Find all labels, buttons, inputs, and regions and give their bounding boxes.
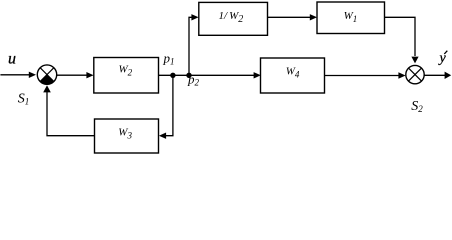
wire W1 to S2 (385, 17, 416, 56)
block W1 (317, 2, 385, 34)
svg-text:u: u (8, 50, 16, 67)
wire p2 up to 1/W2 (189, 17, 194, 75)
wire p1 down to W3 (165, 75, 173, 135)
block 1/W2 (199, 2, 268, 35)
wire W4 to S2 (325, 75, 401, 77)
wire S2 to output y (424, 74, 446, 76)
block W3 (95, 119, 159, 153)
summing junction S2 (406, 65, 424, 83)
node p2 (junction dot) (186, 73, 191, 78)
block W4 (261, 58, 325, 93)
wire W3 to S1 (feedback) (47, 92, 95, 136)
node p1 (junction dot) (170, 73, 175, 78)
wire W2 to W4 (159, 74, 256, 76)
block W2 (94, 58, 159, 94)
wire 1/W2 to W1 (268, 16, 313, 18)
node y-dot (output label) (438, 51, 448, 66)
wire input u to S1 (0, 74, 30, 76)
summing junction S1 (37, 65, 56, 84)
wire S1 to W2 (57, 74, 89, 76)
